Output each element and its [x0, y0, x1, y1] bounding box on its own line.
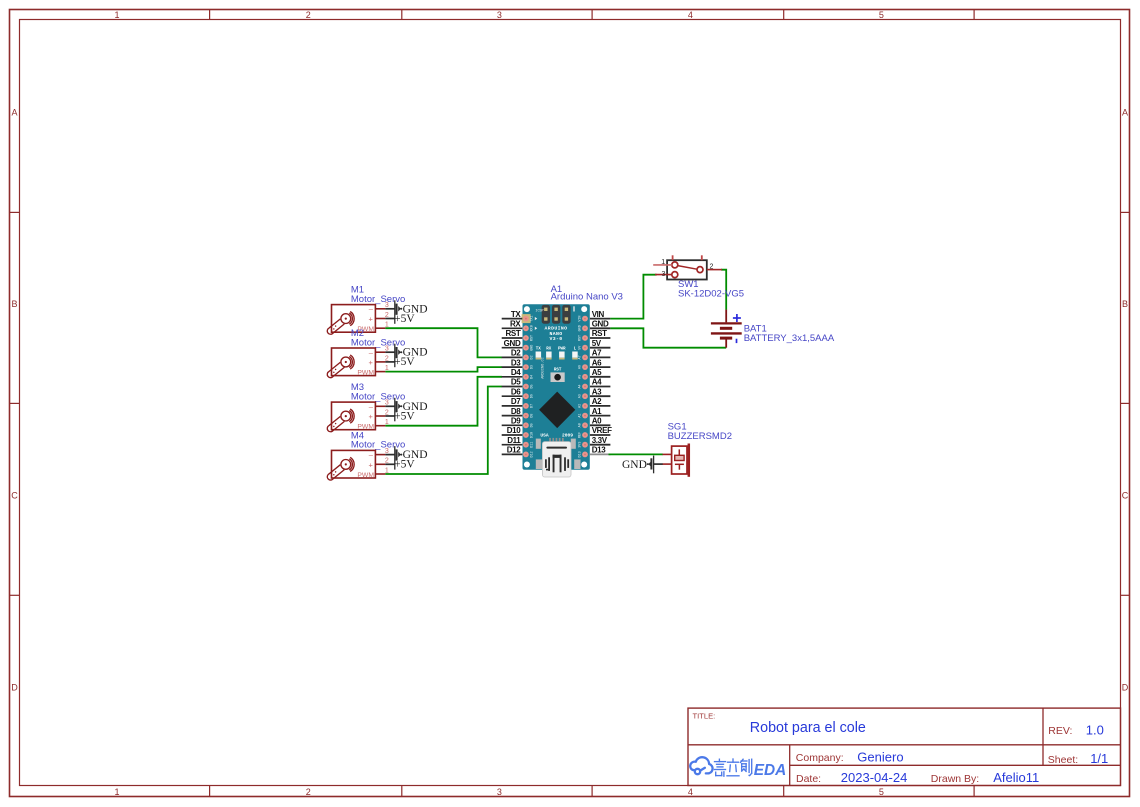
A1 pin RST (right row 3): [590, 337, 611, 339]
svg-text:PWM: PWM: [357, 370, 374, 377]
svg-text:D8: D8: [511, 407, 521, 416]
wire M4 PWM to D5: [385, 387, 502, 475]
wire SW1 pin 2 to BAT1 positive: [721, 270, 726, 310]
svg-text:GND: GND: [622, 459, 647, 471]
ground flag GND at M2 pin 3: [385, 344, 427, 368]
svg-text:D9: D9: [531, 423, 535, 427]
SW1 pin 2: [707, 269, 722, 271]
svg-text:Motor_Servo: Motor_Servo: [351, 440, 405, 451]
A1 pin D9 (left row 12): [502, 424, 523, 426]
svg-text:D: D: [1122, 682, 1129, 692]
svg-text:ARDUINO.CC: ARDUINO.CC: [542, 357, 546, 379]
svg-text:A7: A7: [578, 355, 582, 359]
A1 pin TX (left row 1): [502, 318, 523, 320]
A1 pin A7 (right row 5): [590, 356, 611, 358]
svg-text:+5V: +5V: [394, 459, 415, 471]
svg-text:D3: D3: [511, 358, 521, 367]
svg-text:D7: D7: [511, 397, 521, 406]
svg-text:A7: A7: [592, 349, 602, 358]
ground flag GND at SG1 pin 2: [622, 456, 663, 474]
svg-text:D3: D3: [531, 365, 535, 369]
title block: [688, 708, 1121, 785]
svg-text:RST: RST: [531, 335, 535, 341]
A1 pin D12 (left row 15): [502, 453, 523, 455]
battery BAT1 BATTERY_3x1,5AAA: [711, 310, 835, 348]
svg-text:RX: RX: [510, 320, 521, 329]
A1 pin RST (left row 3): [502, 337, 523, 339]
svg-text:Geniero: Geniero: [857, 750, 903, 765]
svg-text:3V3: 3V3: [578, 442, 582, 448]
svg-text:GND: GND: [504, 339, 521, 348]
svg-text:D: D: [11, 682, 18, 692]
svg-text:USA: USA: [540, 433, 549, 439]
svg-text:D12: D12: [531, 451, 535, 457]
svg-text:A: A: [11, 108, 17, 118]
svg-text:3: 3: [661, 271, 665, 278]
svg-text:+: +: [369, 460, 374, 469]
svg-text:VREF: VREF: [592, 426, 612, 435]
svg-text:ICSP: ICSP: [535, 310, 543, 314]
svg-text:D6: D6: [511, 387, 521, 396]
svg-text:A2: A2: [592, 397, 602, 406]
SW1 pin 3: [655, 274, 672, 276]
svg-text:Sheet:: Sheet:: [1048, 754, 1078, 766]
motor M1 Motor_Servo: [326, 285, 405, 336]
A1 pin 3.3V (right row 14): [590, 444, 611, 446]
module A1 Arduino Nano V3: [522, 284, 623, 477]
svg-text:GND: GND: [592, 320, 609, 329]
svg-text:+5V: +5V: [394, 313, 415, 325]
svg-text:B: B: [1122, 299, 1128, 309]
A1 pin 5V (right row 4): [590, 347, 611, 349]
ground flag GND at M4 pin 3: [385, 446, 427, 470]
svg-text:REV:: REV:: [1048, 725, 1072, 737]
svg-text:A5: A5: [592, 368, 602, 377]
M2 pin 2 (+5V): [375, 361, 385, 363]
A1 pin A5 (right row 7): [590, 376, 611, 378]
svg-text:D12: D12: [507, 446, 522, 455]
svg-text:REF: REF: [578, 432, 582, 438]
svg-text:GND: GND: [531, 345, 535, 351]
motor M2 Motor_Servo: [326, 328, 405, 379]
svg-text:RST: RST: [592, 329, 607, 338]
ground flag GND at M3 pin 3: [385, 398, 427, 422]
svg-text:D2: D2: [531, 355, 535, 359]
M4 pin 1 (PWM): [375, 473, 385, 475]
svg-text:EDA: EDA: [754, 762, 787, 779]
A1 pin A0 (right row 12): [590, 424, 611, 426]
svg-text:Date:: Date:: [796, 773, 821, 785]
A1 pin D10 (left row 13): [502, 434, 523, 436]
M3 pin 1 (PWM): [375, 425, 385, 427]
svg-text:D4: D4: [531, 375, 535, 379]
svg-text:1.0: 1.0: [1086, 722, 1104, 737]
wire GND flag to SG1 pin 2: [654, 463, 663, 465]
svg-text:Company:: Company:: [796, 752, 844, 764]
svg-text:+: +: [369, 412, 374, 421]
svg-text:A2: A2: [578, 404, 582, 408]
svg-text:D2: D2: [511, 349, 521, 358]
svg-text:5: 5: [879, 787, 884, 797]
svg-text:A4: A4: [592, 378, 602, 387]
svg-text:RST: RST: [505, 329, 520, 338]
power flag +5V at M4 pin 2: [385, 459, 415, 471]
power flag +5V at M2 pin 2: [385, 356, 415, 368]
A1 pin D4 (left row 7): [502, 376, 523, 378]
svg-text:1: 1: [114, 787, 119, 797]
motor M4 Motor_Servo: [326, 431, 405, 482]
svg-text:D10: D10: [531, 432, 535, 438]
svg-text:A5: A5: [578, 375, 582, 379]
wire M3 PWM to D4: [385, 377, 502, 426]
svg-text:RST: RST: [554, 368, 562, 372]
svg-text:A6: A6: [592, 358, 602, 367]
svg-text:1/1: 1/1: [1090, 751, 1108, 766]
svg-text:D13: D13: [578, 451, 582, 457]
svg-text:A0: A0: [592, 417, 602, 426]
A1 pin GND (left row 4): [502, 347, 523, 349]
A1 pin D5 (left row 8): [502, 386, 523, 388]
svg-text:D11: D11: [531, 442, 535, 448]
svg-text:3: 3: [497, 10, 502, 20]
svg-text:Drawn By:: Drawn By:: [931, 773, 979, 785]
svg-text:+5V: +5V: [394, 410, 415, 422]
A1 pin RX (left row 2): [502, 327, 523, 329]
svg-text:C: C: [1122, 491, 1129, 501]
svg-text:Motor_Servo: Motor_Servo: [351, 294, 405, 305]
SG1 pin 2: [663, 463, 672, 465]
svg-text:3.3V: 3.3V: [592, 436, 608, 445]
A1 pin D2 (left row 5): [502, 356, 523, 358]
svg-text:Afelio11: Afelio11: [993, 770, 1039, 785]
A1 pin VIN (right row 1): [590, 318, 611, 320]
A1 pin D3 (left row 6): [502, 366, 523, 368]
svg-text:2: 2: [306, 10, 311, 20]
svg-text:B: B: [11, 299, 17, 309]
svg-text:D9: D9: [511, 417, 521, 426]
svg-text:D5: D5: [511, 378, 521, 387]
svg-text:D13: D13: [592, 446, 607, 455]
svg-text:PWM: PWM: [357, 472, 374, 479]
wire VIN to SW1 pin 3: [610, 275, 656, 319]
A1 pin A6 (right row 6): [590, 366, 611, 368]
power flag +5V at M1 pin 2: [385, 313, 415, 325]
svg-text:2: 2: [306, 787, 311, 797]
svg-text:D5: D5: [531, 384, 535, 388]
power flag +5V at M3 pin 2: [385, 410, 415, 422]
SG1 pin 1: [663, 453, 672, 455]
svg-text:5V: 5V: [592, 339, 602, 348]
svg-text:A3: A3: [578, 394, 582, 398]
svg-text:3: 3: [497, 787, 502, 797]
svg-text:RX0: RX0: [531, 325, 535, 331]
wire M2 PWM to D3: [385, 367, 502, 372]
M3 pin 3 (GND): [375, 405, 385, 407]
SW1 pin 1: [653, 264, 672, 266]
motor M3 Motor_Servo: [326, 382, 405, 433]
M1 pin 2 (+5V): [375, 318, 385, 320]
A1 pin GND (right row 2): [590, 327, 611, 329]
M1 pin 3 (GND): [375, 308, 385, 310]
svg-text:A1: A1: [578, 414, 582, 418]
A1 pin A3 (right row 9): [590, 395, 611, 397]
svg-text:2023-04-24: 2023-04-24: [841, 770, 908, 785]
M3 pin 2 (+5V): [375, 415, 385, 417]
svg-text:A3: A3: [592, 387, 602, 396]
M2 pin 1 (PWM): [375, 371, 385, 373]
svg-text:D11: D11: [507, 436, 521, 445]
svg-text:NANO: NANO: [549, 331, 562, 337]
SW1 mounting pins: [672, 255, 674, 260]
A1 pin A2 (right row 10): [590, 405, 611, 407]
svg-text:C: C: [11, 491, 18, 501]
switch SW1 SK-12D02-VG5: [667, 260, 744, 299]
svg-text:A: A: [1122, 108, 1128, 118]
A1 pin D8 (left row 11): [502, 415, 523, 417]
svg-text:+: +: [369, 358, 374, 367]
svg-text:5: 5: [879, 10, 884, 20]
svg-text:TX: TX: [511, 310, 522, 319]
svg-text:RX: RX: [546, 347, 552, 351]
svg-text:2: 2: [709, 263, 713, 270]
A1 pin D11 (left row 14): [502, 444, 523, 446]
svg-text:Arduino Nano V3: Arduino Nano V3: [551, 292, 623, 303]
svg-text:D8: D8: [531, 414, 535, 418]
svg-text:A1: A1: [592, 407, 602, 416]
M2 pin 3 (GND): [375, 351, 385, 353]
svg-text:SK-12D02-VG5: SK-12D02-VG5: [678, 289, 744, 300]
JLC EDA logo: [690, 757, 712, 774]
svg-text:TX: TX: [536, 347, 542, 351]
svg-text:Motor_Servo: Motor_Servo: [351, 391, 405, 402]
A1 pin VREF (right row 13): [590, 434, 611, 436]
svg-text:A6: A6: [578, 365, 582, 369]
svg-text:TITLE:: TITLE:: [693, 712, 716, 721]
svg-text:2009: 2009: [562, 433, 573, 439]
svg-text:TX1: TX1: [531, 316, 535, 322]
svg-text:VIN: VIN: [592, 310, 605, 319]
svg-text:D10: D10: [507, 426, 522, 435]
svg-text:D7: D7: [531, 404, 535, 408]
svg-text:Motor_Servo: Motor_Servo: [351, 337, 405, 348]
A1 pin A1 (right row 11): [590, 415, 611, 417]
svg-text:V3-0: V3-0: [549, 336, 562, 342]
wire M1 PWM to D2: [385, 328, 502, 357]
svg-text:A0: A0: [578, 423, 582, 427]
svg-text:1: 1: [661, 259, 665, 266]
A1 pin D7 (left row 10): [502, 405, 523, 407]
svg-text:1: 1: [114, 10, 119, 20]
wire D13 to SG1 pin 1: [609, 453, 663, 455]
svg-text:D4: D4: [511, 368, 521, 377]
svg-text:4: 4: [688, 10, 693, 20]
buzzer SG1 BUZZERSMD2: [668, 422, 732, 477]
svg-text:VIN: VIN: [578, 316, 582, 322]
svg-text:4: 4: [688, 787, 693, 797]
wire GND to BAT1 negative: [610, 328, 726, 347]
svg-text:+: +: [369, 315, 374, 324]
A1 pin A4 (right row 8): [590, 386, 611, 388]
svg-text:+5V: +5V: [394, 356, 415, 368]
M4 pin 2 (+5V): [375, 463, 385, 465]
M4 pin 3 (GND): [375, 454, 385, 456]
A1 pin D6 (left row 9): [502, 395, 523, 397]
svg-text:RST: RST: [578, 335, 582, 341]
M1 pin 1 (PWM): [375, 327, 385, 329]
svg-text:ARDUINO: ARDUINO: [545, 326, 568, 332]
svg-text:Robot para el cole: Robot para el cole: [750, 720, 866, 736]
svg-text:GND: GND: [578, 325, 582, 331]
svg-text:BUZZERSMD2: BUZZERSMD2: [668, 431, 732, 442]
svg-text:A4: A4: [578, 384, 582, 388]
svg-text:PWR: PWR: [558, 347, 566, 351]
A1 pin D13 (right row 15): [590, 453, 611, 455]
ground flag GND at M1 pin 3: [385, 300, 427, 324]
svg-text:BATTERY_3x1,5AAA: BATTERY_3x1,5AAA: [744, 333, 835, 344]
svg-text:D6: D6: [531, 394, 535, 398]
